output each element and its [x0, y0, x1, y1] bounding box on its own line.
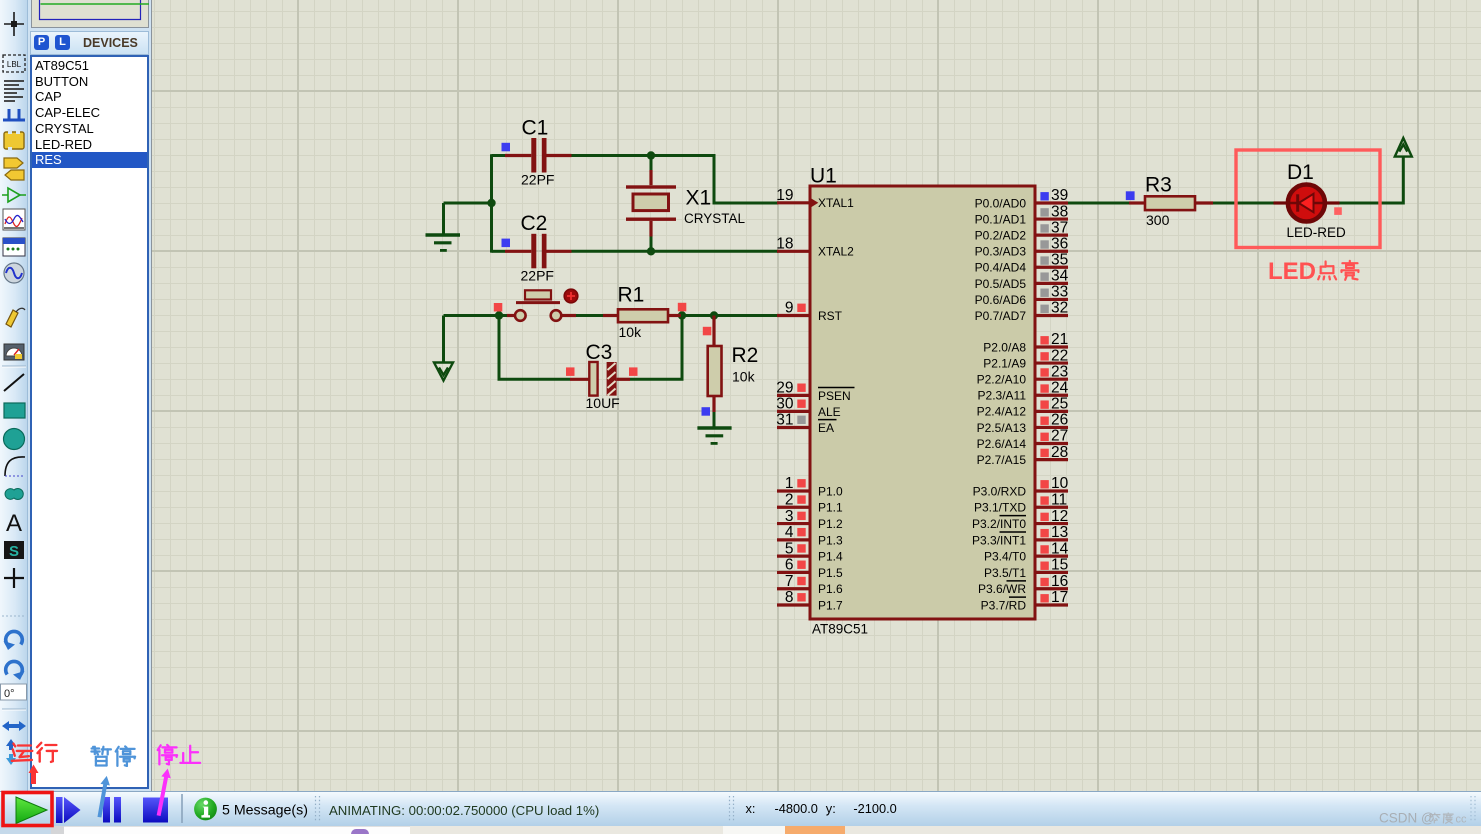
- pin 19 XTAL1: [776, 187, 854, 210]
- annotation text 运行 (run): [12, 743, 57, 762]
- pin 26 P2.5/A13: [977, 412, 1069, 435]
- wire: R2 bottom to ground: [713, 410, 716, 429]
- pushbutton (reset): [507, 290, 576, 321]
- resistor R3: [1129, 196, 1213, 210]
- wire: left vertical to ground arrow: [442, 316, 445, 364]
- wire: button junction drop to C3 row: [499, 316, 570, 380]
- annotation arrow (blue): [95, 775, 112, 818]
- junction node at ground branch: [487, 199, 495, 207]
- pin 3 P1.2: [777, 508, 843, 531]
- LED D1 (lit, red): [1274, 185, 1340, 222]
- wire: C1 right to corner x714 down to XTAL1 row, to pin 19: [572, 156, 779, 204]
- capacitor C3 (electrolytic): [570, 362, 630, 396]
- wire: ground branch vertical: [442, 203, 445, 235]
- capacitor C1: [505, 138, 572, 173]
- pin 14 P3.4/T0: [984, 540, 1069, 563]
- annotation text 停止 (stop): [158, 745, 200, 765]
- pin 5 P1.4: [777, 540, 843, 563]
- svg-text:CSDN @: CSDN @: [1379, 811, 1435, 826]
- pin 28 P2.7/A15: [977, 444, 1069, 467]
- logic state square (R3 left, blue): [1126, 191, 1135, 200]
- pin 6 P1.5: [777, 557, 843, 580]
- wire: R1 right to RST pin 9: [681, 314, 778, 317]
- wire: C2 row to XTAL2 pin 18: [572, 250, 779, 253]
- pin 36 P0.3/AD3: [975, 235, 1069, 258]
- logic state square (C2 left, blue): [502, 239, 511, 248]
- wire: button to R1: [576, 314, 603, 317]
- pin 9 RST: [777, 300, 843, 323]
- pin 11 P3.1/TXD: [974, 491, 1068, 514]
- pin 39 P0.0/AD0: [975, 187, 1069, 210]
- junction node at button/RST left: [495, 311, 503, 319]
- pin 27 P2.6/A14: [977, 428, 1069, 451]
- logic state square (C1 left, blue): [502, 143, 511, 152]
- ground (arrow style) below RST row: [434, 363, 453, 381]
- clock input wedge pin 19: [812, 199, 819, 207]
- ground (bar style) below R2: [697, 428, 731, 443]
- junction node at C1/crystal top: [647, 151, 655, 159]
- pin 10 P3.0/RXD: [973, 475, 1069, 498]
- pin 31 EA: [776, 412, 836, 435]
- logic state square (R1 right): [678, 303, 687, 312]
- junction node at C2/crystal bottom: [647, 247, 655, 255]
- logic state square (LED right, pink): [1334, 207, 1342, 215]
- pin 38 P0.1/AD1: [975, 203, 1069, 226]
- pin 17 P3.7/RD: [981, 589, 1069, 612]
- crystal X1: [626, 156, 676, 252]
- chip body: [810, 186, 1035, 619]
- wire: LED D1 to power riser: [1339, 156, 1403, 203]
- annotation arrow (red, up): [29, 765, 39, 785]
- pin 35 P0.4/AD4: [975, 251, 1069, 274]
- pin 24 P2.3/A11: [978, 379, 1069, 402]
- junction node at R2 top: [710, 311, 718, 319]
- pin 4 P1.3: [777, 524, 843, 547]
- pin 18 XTAL2: [776, 236, 854, 259]
- logic state square (C3 right): [629, 367, 638, 376]
- microcontroller U1 AT89C51: [810, 186, 1035, 619]
- wire: pin 39 to R3: [1068, 202, 1129, 205]
- pin 1 P1.0: [777, 475, 843, 498]
- pin 34 P0.5/AD5: [975, 268, 1069, 291]
- pin 23 P2.2/A10: [977, 363, 1069, 386]
- button actuator marker (red circle): [564, 289, 578, 303]
- pin 33 P0.6/AD6: [975, 284, 1069, 307]
- logic state square (C3 left): [566, 367, 575, 376]
- svg-text:cc: cc: [1456, 814, 1468, 826]
- wire: left vertical C1-C2: [490, 154, 493, 252]
- annotation text 暂停 (pause): [91, 746, 135, 766]
- resistor R1: [603, 309, 681, 322]
- pin 22 P2.1/A9: [983, 347, 1068, 370]
- logic state square (R2 bottom, blue): [702, 407, 711, 416]
- pin 16 P3.6/WR: [978, 573, 1068, 596]
- pin 7 P1.6: [777, 573, 843, 596]
- junction node at R1 right: [678, 311, 686, 319]
- wire: ground branch horizontal: [444, 202, 492, 205]
- red highlight box around play button: [3, 793, 52, 826]
- power terminal (up arrow) at LED net: [1395, 138, 1412, 157]
- wire: RST row left dangling to button: [444, 314, 508, 317]
- wire: C1 row from left vertical to C1: [492, 154, 506, 157]
- wire: C3 right plate to vertical riser up to RST row: [630, 316, 682, 380]
- pin 12 P3.2/INT0: [972, 508, 1068, 531]
- resistor R2: [708, 316, 722, 413]
- wire: C2 row left segment: [492, 250, 506, 253]
- pin 8 P1.7: [777, 589, 843, 612]
- pin 37 P0.2/AD2: [975, 219, 1069, 242]
- logic state square (R2 top): [703, 327, 712, 336]
- pin 30 ALE: [776, 396, 840, 419]
- wire: R3 to LED D1: [1213, 202, 1275, 205]
- pin 32 P0.7/AD7: [975, 300, 1069, 323]
- pin 25 P2.4/A12: [977, 396, 1069, 419]
- logic state square (button left): [494, 303, 503, 312]
- pin 21 P2.0/A8: [983, 331, 1068, 354]
- pin 29 PSEN: [776, 380, 854, 403]
- pin 2 P1.1: [777, 491, 843, 514]
- capacitor C2: [505, 234, 572, 268]
- highlight rectangle around D1: [1236, 150, 1380, 248]
- annotation arrow (magenta): [154, 768, 173, 817]
- pin 13 P3.3/INT1: [972, 524, 1068, 547]
- svg-text:LED: LED: [1268, 258, 1316, 285]
- ground (bar style) left of C1/C2: [426, 235, 461, 250]
- pin 15 P3.5/T1: [984, 557, 1068, 580]
